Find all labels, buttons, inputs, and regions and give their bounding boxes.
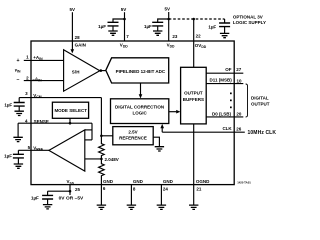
svg-text:OPTIONAL 3V: OPTIONAL 3V: [233, 15, 263, 20]
svg-text:–AIN: –AIN: [32, 76, 42, 82]
wire SENSE to ground: [17, 123, 19, 137]
svg-text:2.048V: 2.048V: [105, 157, 119, 162]
block OUTPUT BUFFERS: [181, 67, 207, 124]
svg-text:20: 20: [236, 111, 242, 116]
wire buffer input lower to tap: [85, 158, 102, 160]
wire ADC to correction logic: [140, 83, 142, 95]
svg-text:1µF: 1µF: [4, 102, 12, 107]
svg-text:CLK: CLK: [222, 126, 232, 131]
svg-text:24: 24: [163, 187, 169, 192]
op-amp S/H: [64, 50, 100, 91]
wire sense drop: [91, 123, 93, 140]
block DIGITAL CORRECTION LOGIC: [111, 99, 169, 124]
arrowhead into output buffers: [176, 110, 180, 114]
ground (C5): [14, 164, 23, 168]
wire buffer input upper: [85, 139, 92, 141]
chip boundary: [31, 41, 234, 185]
ground (SENSE): [13, 137, 22, 141]
wire branch to C1: [113, 19, 125, 22]
svg-text:1420 TA01: 1420 TA01: [237, 181, 251, 185]
svg-text:OF: OF: [225, 67, 232, 72]
svg-text:SENSE: SENSE: [34, 119, 49, 124]
capacitor C4 1uF (VCM): [18, 98, 20, 103]
svg-text:5V: 5V: [69, 7, 75, 12]
wire CLK pin 26: [162, 131, 245, 133]
svg-text:+: +: [16, 58, 19, 64]
junction dot S/H output: [100, 69, 103, 72]
junction dot reference output: [100, 135, 103, 138]
wire GND pin 8: [130, 185, 132, 206]
resistor R1 (divider upper): [99, 136, 105, 159]
wire +AIN pin 1: [24, 59, 64, 61]
svg-text:21: 21: [196, 186, 202, 191]
wire 5V to GAIN pin 28: [71, 12, 73, 50]
wire branch to C2: [158, 19, 169, 22]
wire correction logic to output buffers: [169, 111, 177, 113]
junction dot VDD23: [167, 18, 170, 21]
svg-text:5V: 5V: [121, 7, 127, 12]
capacitor C3 1uF (optional supply): [224, 19, 226, 23]
svg-text:7: 7: [126, 34, 129, 39]
svg-text:23: 23: [172, 34, 178, 39]
wire dashed optional 3V supply: [169, 18, 225, 20]
wire buffer feedback top: [85, 129, 92, 131]
block 2.5V REFERENCE: [113, 127, 153, 145]
node digital output brace: [246, 84, 248, 117]
wire VCM pin 3: [19, 97, 101, 99]
svg-text:27: 27: [236, 67, 242, 72]
svg-text:3: 3: [25, 91, 28, 96]
svg-text:VCM: VCM: [33, 93, 41, 99]
resistor R2 (divider lower): [99, 159, 105, 185]
block MODE SELECT: [52, 102, 88, 118]
svg-text:GND: GND: [103, 179, 114, 184]
svg-text:1µF: 1µF: [144, 24, 152, 29]
svg-text:25: 25: [75, 187, 81, 192]
svg-text:8: 8: [133, 187, 136, 192]
svg-text:0V OR –5V: 0V OR –5V: [59, 195, 84, 201]
arrowhead CLK into correction logic: [160, 124, 164, 128]
svg-text:1µF: 1µF: [98, 24, 106, 29]
wire OGND pin 21 (from output buffers): [193, 124, 195, 205]
capacitor C6 1uF (VSS): [47, 191, 49, 195]
junction dot mode/sense: [69, 122, 72, 125]
wire VSS pin 25: [69, 185, 71, 195]
svg-text:S/H: S/H: [72, 69, 80, 74]
svg-text:OUTPUT: OUTPUT: [184, 91, 203, 96]
wire SENSE pin 4: [18, 122, 92, 124]
wire OF pin 27: [206, 72, 243, 74]
svg-text:OUTPUT: OUTPUT: [251, 101, 270, 106]
svg-text:6: 6: [103, 186, 106, 191]
svg-text:vIN: vIN: [15, 67, 21, 73]
ground (pin 6): [97, 205, 106, 209]
svg-text:DIGITAL CORRECTION: DIGITAL CORRECTION: [115, 105, 164, 110]
svg-text:D11 (MSB): D11 (MSB): [210, 77, 233, 82]
wire VREF pin 5: [18, 149, 49, 151]
wire S/H to ADC: [99, 70, 106, 72]
wire -AIN pin 2: [24, 80, 64, 82]
svg-text:REFERENCE: REFERENCE: [119, 136, 147, 141]
junction dot VDD7: [123, 18, 126, 21]
wire GND pin 6: [100, 185, 102, 206]
svg-text:MODE SELECT: MODE SELECT: [54, 108, 87, 113]
op-amp reference buffer: [49, 130, 85, 171]
svg-text:LOGIC: LOGIC: [132, 110, 147, 115]
ground (pin 8): [127, 205, 136, 209]
svg-text:VDD: VDD: [120, 43, 128, 49]
node ellipsis dots: [230, 93, 232, 95]
svg-text:5: 5: [28, 145, 31, 150]
junction dot 2.048V tap: [100, 158, 103, 161]
ground (reference): [155, 147, 164, 151]
wire D11 (MSB) pin 10: [206, 83, 243, 85]
wire 5V to VDD pin 23: [168, 12, 170, 41]
svg-text:LOGIC SUPPLY: LOGIC SUPPLY: [233, 20, 266, 25]
svg-text:GND: GND: [163, 179, 174, 184]
gain arrowhead into S/H: [71, 49, 75, 53]
svg-text:5V: 5V: [164, 7, 170, 12]
capacitor C1 1uF (VDD7 bypass): [108, 22, 119, 26]
wire OVDD pin 22 down to output buffers: [193, 19, 195, 67]
svg-text:22: 22: [196, 34, 202, 39]
ground (C2): [153, 31, 162, 35]
svg-text:1µF: 1µF: [4, 154, 12, 159]
wire reference to ground: [153, 137, 159, 147]
svg-text:–: –: [17, 77, 20, 83]
svg-text:2: 2: [26, 76, 29, 81]
wire D0 (LSB) pin 20: [206, 116, 243, 118]
wire VSS to C6: [48, 190, 70, 192]
svg-text:26: 26: [236, 126, 242, 131]
svg-text:PIPELINED 12-BIT ADC: PIPELINED 12-BIT ADC: [116, 69, 166, 74]
svg-text:OGND: OGND: [196, 179, 210, 184]
capacitor C2 1uF (VDD23 bypass): [152, 22, 163, 26]
ground (pin 21): [189, 205, 198, 209]
svg-text:28: 28: [75, 35, 81, 40]
svg-text:OVDD: OVDD: [195, 43, 207, 49]
wire reference node to reference box: [101, 135, 112, 137]
wire GND pin 24: [160, 185, 162, 206]
ground (C4): [15, 111, 24, 115]
svg-text:DIGITAL: DIGITAL: [251, 96, 269, 101]
svg-text:GAIN: GAIN: [75, 43, 86, 48]
ground (pin 24): [157, 205, 166, 209]
svg-text:VDD: VDD: [167, 43, 175, 49]
ground (C3): [220, 33, 229, 37]
svg-text:1µF: 1µF: [31, 196, 39, 201]
ground (C6): [43, 205, 52, 209]
wire mode select to sense line: [69, 118, 71, 123]
ground (C1): [108, 31, 117, 35]
capacitor C5 1uF (VREF): [17, 150, 19, 154]
junction dot OVDD: [192, 18, 195, 21]
svg-text:2.5V: 2.5V: [128, 130, 137, 135]
svg-text:D0 (LSB): D0 (LSB): [212, 111, 232, 116]
svg-text:10MHz CLK: 10MHz CLK: [248, 130, 277, 136]
svg-text:1: 1: [26, 55, 29, 60]
svg-text:GND: GND: [133, 179, 144, 184]
wire 5V to VDD pin 7: [124, 12, 126, 41]
svg-text:10: 10: [237, 79, 243, 84]
wire VCM down to reference node: [100, 98, 102, 136]
svg-text:1µF: 1µF: [208, 24, 216, 29]
svg-text:BUFFERS: BUFFERS: [183, 97, 204, 102]
block PIPELINED 12-BIT ADC: [106, 58, 169, 83]
wire CLK up to correction logic: [161, 128, 163, 133]
junction dot VSS: [69, 190, 72, 193]
arrowhead into correction logic: [139, 94, 143, 98]
